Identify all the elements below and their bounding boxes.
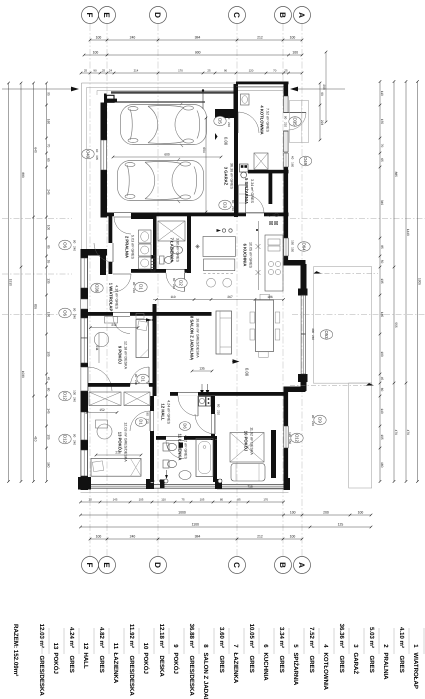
svg-text:POKÓJ: POKÓJ	[52, 653, 60, 674]
svg-text:40: 40	[95, 149, 99, 153]
entry arrow east	[296, 88, 345, 90]
wall: garage west	[101, 103, 108, 218]
svg-text:O6: O6	[63, 242, 68, 248]
svg-text:A: A	[297, 562, 306, 568]
svg-text:D9: D9	[318, 417, 323, 423]
svg-text:90: 90	[72, 240, 76, 244]
svg-text:25: 25	[84, 69, 88, 73]
svg-text:384: 384	[195, 535, 201, 539]
spizarnia shelves	[239, 185, 246, 213]
svg-text:384: 384	[195, 36, 201, 40]
lazienka7 shower	[158, 221, 185, 241]
svg-text:0.00: 0.00	[245, 368, 250, 377]
garage door rail line	[202, 91, 204, 110]
wall: east (front) exterior	[284, 82, 289, 97]
svg-text:900: 900	[195, 51, 201, 55]
bay window jamb 2	[298, 374, 308, 382]
dim chain bottom level3	[81, 526, 372, 528]
svg-text:WIATROŁAP: WIATROŁAP	[412, 653, 419, 689]
svg-text:210: 210	[172, 284, 176, 289]
wall pralnia/lazienka7 south	[131, 269, 191, 273]
svg-text:25: 25	[102, 69, 106, 73]
svg-text:O40: O40	[86, 150, 91, 159]
hall tag D6	[179, 422, 190, 431]
svg-text:555: 555	[394, 322, 398, 328]
svg-text:885: 885	[394, 172, 398, 178]
kitchen island extension	[204, 259, 235, 271]
plant symbol	[195, 246, 199, 248]
terrace outline	[314, 267, 372, 384]
island dashed edge	[204, 273, 236, 275]
bedroom13 closet A	[89, 392, 121, 406]
dim entrance position	[319, 83, 321, 140]
level mark 0.00 salon	[232, 361, 236, 363]
grid line A	[301, 24, 303, 556]
svg-text:9 POKÓJ: 9 POKÓJ	[118, 346, 123, 365]
door bedroom9	[148, 367, 150, 386]
svg-text:A: A	[297, 12, 306, 18]
svg-text:267: 267	[227, 295, 233, 299]
wall wiatrolap/bed9 north	[81, 312, 212, 316]
wall pralnia | lazienka7	[153, 215, 157, 269]
svg-text:145: 145	[47, 408, 51, 414]
svg-text:O12: O12	[295, 434, 300, 443]
svg-text:5 SPIŻARNIA: 5 SPIŻARNIA	[244, 178, 249, 204]
wall front middle section	[284, 167, 289, 238]
svg-text:25: 25	[284, 69, 288, 73]
eaves outline around garage corner	[82, 82, 289, 84]
svg-text:855: 855	[34, 304, 38, 310]
dim bed13 216	[96, 454, 141, 456]
grid bubble E bottom	[99, 557, 116, 574]
svg-text:11.92 m²: 11.92 m²	[128, 624, 135, 648]
svg-text:11: 11	[112, 643, 119, 650]
south wall glazing mid lines	[91, 485, 146, 487]
bedroom10 commode	[231, 464, 265, 482]
svg-text:12.18 m²: 12.18 m²	[158, 624, 165, 648]
wall front below bay	[284, 390, 289, 426]
dim hall internal 135	[192, 370, 212, 372]
window O49	[283, 153, 285, 167]
entry arrow west	[2, 88, 74, 90]
svg-text:90: 90	[72, 308, 76, 312]
svg-text:D12: D12	[63, 435, 68, 443]
wall: pier garage|kotlownia	[234, 84, 239, 118]
terrace strip south	[349, 383, 372, 488]
svg-text:6 KUCHNIA: 6 KUCHNIA	[243, 244, 248, 267]
svg-text:10.05 m²: 10.05 m²	[248, 624, 255, 648]
dim chain left fine	[46, 83, 48, 482]
grid line E	[106, 24, 108, 556]
door bathroom11	[166, 440, 184, 442]
svg-text:O64: O64	[302, 242, 307, 251]
svg-text:105: 105	[47, 434, 51, 440]
tag window O49	[299, 156, 311, 166]
svg-text:90: 90	[93, 69, 97, 73]
grid bubble C top	[229, 7, 246, 24]
svg-text:GRES: GRES	[218, 656, 225, 673]
svg-text:O6: O6	[63, 310, 68, 316]
hall cabinet fixtures on salon wall	[199, 397, 206, 407]
svg-text:D: D	[153, 562, 162, 568]
grid line D	[157, 24, 159, 556]
kotlownia wc/sink	[241, 94, 250, 105]
south wall column rings	[150, 479, 154, 483]
bay front wall upper	[301, 264, 307, 293]
door D12 opening west	[81, 367, 88, 391]
grid bubble F bottom	[82, 557, 99, 574]
svg-text:50: 50	[380, 260, 384, 264]
bay glazing O53 upper	[300, 295, 302, 334]
svg-text:1030: 1030	[21, 371, 25, 378]
svg-text:85: 85	[237, 498, 241, 502]
svg-text:1 WIATROŁAP: 1 WIATROŁAP	[109, 283, 114, 312]
bathroom11 bathtub	[196, 439, 213, 477]
svg-text:RAZEM: 152.09m²: RAZEM: 152.09m²	[12, 624, 19, 676]
svg-text:85: 85	[47, 245, 51, 249]
svg-text:4.24 m² GRES: 4.24 m² GRES	[166, 400, 170, 425]
grid bubble A bottom	[294, 557, 311, 574]
dim chain left total	[8, 83, 10, 482]
svg-text:80: 80	[216, 404, 220, 408]
svg-text:100: 100	[93, 51, 99, 55]
svg-text:1910: 1910	[9, 279, 13, 286]
svg-text:O35: O35	[293, 117, 298, 126]
svg-text:F: F	[85, 563, 94, 568]
svg-text:D: D	[153, 12, 162, 18]
svg-text:GRES: GRES	[308, 656, 315, 673]
bathroom11 washbasin	[179, 471, 191, 480]
svg-text:55: 55	[47, 260, 51, 264]
terrace marker arrow south	[290, 385, 371, 387]
grid bubble B top	[275, 7, 292, 24]
window O6 west b	[81, 338, 88, 363]
svg-text:240: 240	[130, 36, 136, 40]
svg-text:105: 105	[380, 434, 384, 440]
svg-text:210: 210	[216, 410, 220, 415]
svg-text:D3: D3	[223, 202, 228, 208]
svg-text:135: 135	[47, 278, 51, 284]
tag window O6 a	[59, 240, 71, 250]
svg-text:216: 216	[111, 323, 117, 327]
svg-text:36.36 m² GRES: 36.36 m² GRES	[229, 163, 233, 190]
svg-text:12.18 m² DESKA: 12.18 m² DESKA	[123, 341, 127, 370]
svg-text:D1: D1	[141, 376, 146, 382]
svg-text:880: 880	[21, 172, 25, 178]
level mark 0.00 garage	[215, 133, 218, 140]
svg-text:10 POKÓJ: 10 POKÓJ	[244, 431, 249, 452]
wall bedroom9 east	[153, 304, 157, 396]
svg-text:4 KOTŁOWNIA: 4 KOTŁOWNIA	[260, 105, 265, 134]
kitchen wall electrical symbols	[267, 214, 274, 216]
svg-text:80: 80	[172, 278, 176, 282]
tag window O6 b	[59, 308, 71, 318]
svg-text:135: 135	[199, 367, 205, 371]
door D1 bedroom13	[149, 411, 151, 431]
svg-text:E: E	[102, 562, 111, 568]
svg-text:13: 13	[52, 643, 59, 650]
grid bubble C bottom	[229, 557, 246, 574]
svg-text:POKÓJ: POKÓJ	[172, 653, 180, 674]
wall kotlownia | spizarnia	[248, 170, 289, 174]
svg-text:160: 160	[47, 462, 51, 468]
wall socket symbols kitchen north	[222, 229, 225, 232]
svg-text:211: 211	[95, 345, 99, 350]
kitchen cabinet face line	[258, 221, 260, 290]
svg-text:600: 600	[164, 153, 170, 157]
west wall recess light section	[81, 299, 88, 309]
garage lintel beam	[111, 91, 236, 93]
door garage-pralnia	[114, 216, 131, 218]
dim garage internal 600	[113, 156, 221, 158]
svg-text:4.10 m²: 4.10 m²	[398, 627, 405, 648]
bay glazing O53 lower	[300, 334, 302, 374]
kitchen counter along front wall	[265, 235, 283, 291]
svg-text:12 HALL: 12 HALL	[161, 404, 166, 421]
svg-text:7.52 m² GRES: 7.52 m² GRES	[265, 108, 269, 133]
svg-text:90: 90	[224, 69, 228, 73]
dim chain bottom level2	[81, 514, 372, 516]
svg-text:ŁAZIENKA: ŁAZIENKA	[112, 653, 119, 684]
svg-text:B: B	[278, 12, 287, 18]
svg-text:GRES: GRES	[398, 656, 405, 673]
window O12	[283, 426, 285, 448]
svg-text:240: 240	[311, 335, 315, 340]
svg-text:240: 240	[130, 535, 136, 539]
svg-text:190: 190	[47, 312, 51, 318]
garage NW corner column	[104, 94, 107, 103]
svg-text:0.00: 0.00	[224, 137, 229, 146]
kitchen sink bowl 2	[268, 246, 280, 251]
terrace marker arrow north	[314, 273, 378, 275]
svg-text:DESKA: DESKA	[158, 656, 165, 678]
svg-text:4.82 m²: 4.82 m²	[98, 627, 105, 648]
wall bathroom11 | bedroom10	[213, 440, 217, 482]
svg-text:11.92 m² DESKA: 11.92 m² DESKA	[249, 427, 253, 455]
svg-text:170: 170	[178, 69, 183, 73]
tag door spizarnia	[219, 200, 231, 210]
svg-text:7 ŁAZIENKA: 7 ŁAZIENKA	[170, 238, 175, 263]
svg-text:D1: D1	[139, 419, 144, 425]
wall bathroom11 north	[156, 436, 217, 440]
kotlownia boiler	[254, 153, 268, 170]
svg-text:90: 90	[284, 116, 288, 120]
svg-text:200: 200	[322, 84, 326, 90]
svg-text:3.34 m² GRES: 3.34 m² GRES	[250, 179, 254, 204]
svg-text:90: 90	[227, 116, 231, 120]
svg-text:90: 90	[132, 282, 136, 286]
dining chair head north	[260, 294, 270, 300]
svg-text:40: 40	[290, 156, 294, 160]
wall garage south	[107, 213, 238, 217]
wall bedroom9 south	[88, 383, 157, 387]
lazienka7 washbasin	[172, 246, 183, 254]
wall lazienka7 east	[187, 215, 191, 273]
svg-text:120: 120	[288, 432, 292, 437]
window O6 west a	[81, 258, 88, 288]
svg-text:125: 125	[338, 523, 344, 527]
svg-text:100: 100	[47, 225, 51, 231]
svg-text:223: 223	[320, 120, 324, 126]
dim chain left level2	[33, 83, 35, 482]
svg-text:8 SALON Z JADALNIĄ: 8 SALON Z JADALNIĄ	[190, 316, 195, 360]
svg-text:GRES: GRES	[368, 656, 375, 673]
kitchen hob burners	[268, 261, 273, 266]
svg-text:210: 210	[311, 421, 315, 426]
dim chain right level3	[405, 82, 407, 482]
svg-text:10.05 m² GRES: 10.05 m² GRES	[248, 242, 252, 269]
dim bedroom13 internal 152	[87, 412, 117, 414]
hall closet B	[124, 392, 150, 406]
svg-text:100: 100	[96, 535, 102, 539]
svg-text:143: 143	[113, 498, 118, 502]
bedroom13 chair and table	[97, 424, 112, 439]
svg-text:3.34 m²: 3.34 m²	[278, 627, 285, 648]
pralnia basin	[139, 230, 152, 243]
svg-text:3.60 m²: 3.60 m²	[218, 627, 225, 648]
tag door D12 b	[59, 434, 71, 444]
svg-text:155: 155	[380, 119, 384, 125]
svg-text:85: 85	[380, 245, 384, 249]
svg-text:D2: D2	[179, 280, 184, 286]
dim chain bottom fine	[81, 501, 284, 503]
tag window O53	[320, 330, 332, 340]
svg-text:120: 120	[249, 69, 254, 73]
svg-text:70: 70	[380, 144, 384, 148]
wall light segment below door	[284, 131, 289, 152]
svg-text:25: 25	[207, 69, 211, 73]
svg-text:210: 210	[132, 288, 136, 293]
bedroom10 niche wall	[271, 430, 276, 478]
dim salon internal 110 267 186	[153, 299, 284, 301]
svg-text:160: 160	[47, 119, 51, 125]
dim chain right level2	[393, 82, 395, 482]
window O40 in garage west wall	[101, 140, 107, 170]
window O64	[283, 238, 285, 256]
svg-text:135: 135	[380, 278, 384, 284]
dim chain right total	[417, 82, 419, 482]
grid bubble A top	[294, 7, 311, 24]
dim bedroom10 716	[217, 488, 283, 490]
bay front wall lower	[301, 378, 307, 391]
svg-text:212: 212	[257, 36, 263, 40]
axis dash line pralnia south extension	[2, 273, 72, 275]
car 1 in garage	[121, 102, 207, 147]
canopy edge over garage doors	[97, 90, 236, 92]
svg-text:410: 410	[34, 436, 38, 442]
svg-text:100: 100	[96, 36, 102, 40]
svg-text:1000: 1000	[178, 511, 186, 515]
svg-text:100: 100	[290, 535, 296, 539]
svg-text:150: 150	[290, 247, 294, 252]
svg-text:GRES: GRES	[248, 656, 255, 673]
svg-text:11 ŁAZIENKA: 11 ŁAZIENKA	[178, 434, 183, 461]
pralnia dryer	[139, 257, 152, 269]
svg-text:170: 170	[263, 498, 268, 502]
bay jog north wall	[284, 260, 306, 266]
south wall piers	[78, 477, 91, 490]
wall garage east / kotlownia+spizarnia west	[234, 109, 238, 217]
axis dash line wiatrolap south extension	[292, 314, 425, 316]
svg-text:F: F	[85, 13, 94, 18]
svg-text:24: 24	[109, 69, 113, 73]
bed9 corner leader arrow	[146, 319, 153, 321]
svg-text:60: 60	[380, 388, 384, 392]
svg-text:O36: O36	[95, 284, 100, 293]
bathroom11 heater box	[179, 443, 184, 448]
bedroom13 bed	[91, 459, 141, 477]
dim chain top grid	[90, 39, 302, 41]
dim chain left level3	[20, 83, 22, 482]
bedroom10 garderoba closet	[230, 433, 264, 463]
svg-text:36.88 m² GRES/DESKA: 36.88 m² GRES/DESKA	[195, 318, 199, 358]
svg-text:5.03 m²: 5.03 m²	[368, 627, 375, 648]
svg-text:200: 200	[323, 511, 329, 515]
svg-text:10: 10	[142, 643, 149, 650]
svg-text:90: 90	[134, 374, 138, 378]
svg-text:ŁAZIENKA: ŁAZIENKA	[232, 653, 239, 684]
svg-text:13 POKÓJ: 13 POKÓJ	[118, 432, 123, 453]
lazienka7 toilet	[160, 256, 165, 264]
bathroom11 bidet	[163, 460, 169, 468]
svg-text:36.88 m²: 36.88 m²	[188, 624, 195, 648]
tag door D1 bed13	[135, 418, 146, 427]
kitchen stools	[207, 278, 216, 287]
wall jog west (garage to bedroom wing)	[81, 249, 107, 256]
svg-text:340: 340	[380, 200, 384, 206]
svg-text:3 GARAŻ: 3 GARAŻ	[224, 167, 229, 186]
svg-text:KOTŁOWNIA: KOTŁOWNIA	[322, 653, 329, 691]
radiator pralnia wall	[151, 256, 155, 272]
pralnia washer	[139, 244, 152, 256]
grid line B	[282, 24, 284, 556]
svg-text:SALON Z JADALNIĄ: SALON Z JADALNIĄ	[202, 653, 209, 699]
svg-text:70: 70	[47, 144, 51, 148]
dim chain top level2	[84, 54, 302, 56]
svg-text:C: C	[232, 12, 241, 18]
svg-text:110: 110	[380, 91, 384, 96]
svg-text:186: 186	[267, 295, 273, 299]
tag door D9	[314, 415, 326, 425]
svg-text:110: 110	[161, 498, 166, 502]
tag window O40	[82, 149, 94, 159]
svg-text:210: 210	[134, 380, 138, 385]
svg-text:B: B	[278, 562, 287, 568]
svg-text:45: 45	[380, 377, 384, 381]
svg-text:75: 75	[181, 498, 185, 502]
svg-text:100: 100	[292, 51, 298, 55]
wall light segment above door	[284, 96, 289, 113]
svg-text:100: 100	[358, 511, 364, 515]
svg-text:65: 65	[47, 158, 51, 162]
dim chain right fine	[379, 82, 381, 482]
dim bed9 216	[90, 327, 138, 329]
dining chair head south	[259, 352, 269, 358]
tag window O64	[298, 242, 310, 252]
svg-text:140: 140	[380, 408, 384, 414]
door D12 glazed west	[81, 412, 88, 440]
svg-text:2 PRALNIA: 2 PRALNIA	[125, 236, 130, 258]
tag window O12	[291, 433, 303, 443]
wall salon south	[170, 392, 284, 396]
svg-text:190: 190	[380, 351, 384, 357]
window west bedroom13	[81, 450, 88, 476]
door lazienka7 to corridor	[184, 273, 186, 292]
svg-text:640: 640	[34, 147, 38, 153]
svg-text:210: 210	[227, 122, 231, 127]
svg-text:470: 470	[406, 430, 410, 436]
svg-text:105: 105	[139, 498, 144, 502]
